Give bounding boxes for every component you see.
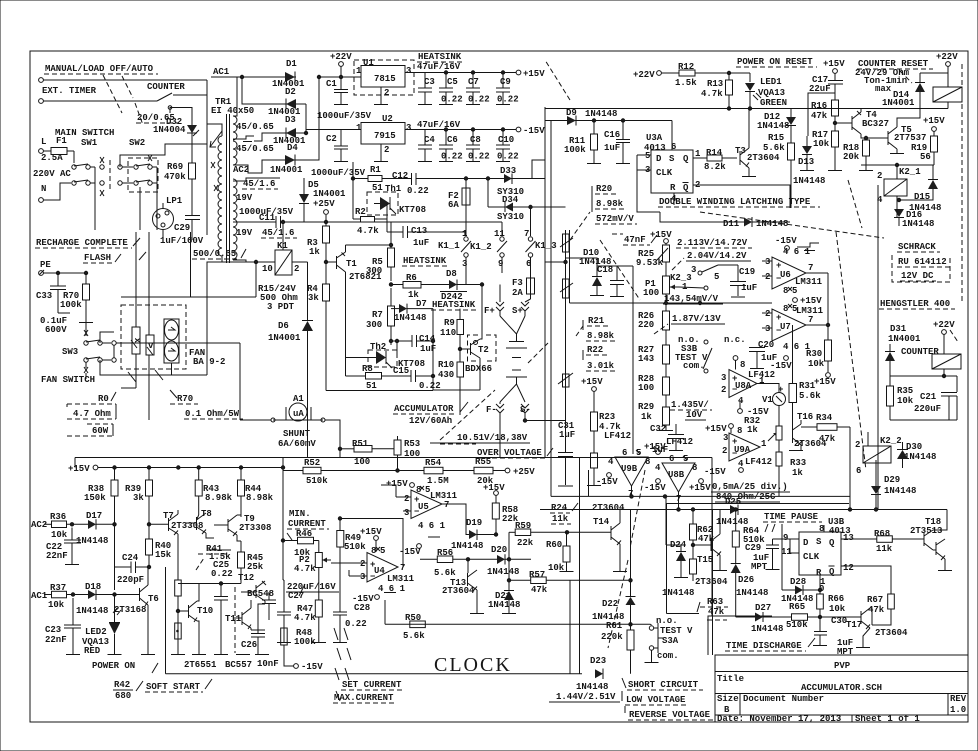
wire T2 emitter row <box>433 389 480 391</box>
svg-text:11k: 11k <box>876 544 893 554</box>
svg-text:+15V: +15V <box>650 230 672 240</box>
label ACCUMULATOR <box>393 402 468 426</box>
capacitor C10 <box>496 128 519 162</box>
capacitor C2 <box>326 130 348 162</box>
wire counter drop <box>170 108 192 164</box>
svg-text:1uF: 1uF <box>420 344 436 354</box>
svg-text:1uF/160V: 1uF/160V <box>160 236 204 246</box>
svg-text:C6: C6 <box>447 135 458 145</box>
fuse F2 <box>448 177 470 232</box>
capacitor C6 <box>439 128 463 162</box>
svg-text:C8: C8 <box>470 135 481 145</box>
diode D16 <box>894 209 934 229</box>
wire shunt leads <box>240 419 271 421</box>
terminal +15V mid <box>793 296 823 306</box>
wire K1 coil <box>207 261 275 263</box>
label COUNTER RESET <box>855 59 933 94</box>
contact K1_1 <box>438 229 482 285</box>
label TIME DISCHARGE <box>725 638 815 651</box>
svg-text:1000uF/35V: 1000uF/35V <box>311 168 366 178</box>
label +22V counter <box>933 320 958 354</box>
lamp LP1 <box>153 196 183 240</box>
resistor R28 <box>638 374 670 407</box>
label R41 annotation <box>196 544 233 579</box>
svg-text:D31: D31 <box>890 324 907 334</box>
resistor R1 leads <box>351 162 383 195</box>
resistor R60 <box>546 532 574 573</box>
svg-text:1N4004: 1N4004 <box>153 125 186 135</box>
transistor T8 <box>186 509 214 538</box>
svg-text:L: L <box>41 137 46 147</box>
wire fan wiring <box>85 323 87 337</box>
svg-text:D11: D11 <box>723 219 740 229</box>
svg-text:1N4148: 1N4148 <box>884 486 916 496</box>
svg-text:U6: U6 <box>780 270 791 280</box>
diode D1 <box>272 59 305 89</box>
resistor R50 <box>403 613 425 641</box>
svg-text:1.435V/: 1.435V/ <box>671 400 709 410</box>
opamp U8A LF412 <box>721 356 775 417</box>
wire D3 anode to winding <box>254 133 285 141</box>
svg-text:1N4001: 1N4001 <box>882 98 915 108</box>
wire -15V bus left <box>282 458 284 541</box>
wire primary bottom <box>207 256 222 273</box>
wire F- drop <box>499 430 501 458</box>
transformer TR1 secondary 45/0.65 windings <box>233 116 237 140</box>
svg-text:1N4148: 1N4148 <box>736 588 768 598</box>
wire time-discharge bracket <box>708 616 772 655</box>
svg-text:1N4001: 1N4001 <box>888 334 921 344</box>
svg-text:47k: 47k <box>819 434 836 444</box>
resistor R70 <box>60 273 93 323</box>
resistor R39 <box>125 468 153 540</box>
svg-text:+15V: +15V <box>360 527 382 537</box>
svg-text:R57: R57 <box>529 570 545 580</box>
resistor R10 <box>438 360 464 415</box>
capacitor C26 <box>241 604 265 654</box>
svg-text:CLK: CLK <box>803 552 820 562</box>
wire 19V top tap <box>233 178 280 181</box>
svg-text:C29: C29 <box>745 543 761 553</box>
svg-text:45/1.6: 45/1.6 <box>262 228 294 238</box>
label OVER VOLTAGE <box>440 444 553 458</box>
capacitor C30 <box>813 616 854 657</box>
capacitor C9 <box>496 71 519 105</box>
regulator U2 7915 <box>341 114 516 162</box>
terminal -15V bl <box>284 660 323 672</box>
svg-text:2: 2 <box>294 264 299 274</box>
wire <box>43 100 157 102</box>
svg-text:1k: 1k <box>747 425 758 435</box>
svg-text:POWER ON: POWER ON <box>92 661 135 671</box>
svg-text:FLASH: FLASH <box>84 253 111 263</box>
wire +22V rail <box>319 76 360 78</box>
diode D33 <box>497 166 532 197</box>
transistor T15 <box>693 510 728 588</box>
svg-text:R70: R70 <box>177 394 193 404</box>
svg-text:R7: R7 <box>372 310 383 320</box>
opamp U6 LM311 <box>762 247 828 289</box>
svg-text:1N4148: 1N4148 <box>756 219 788 229</box>
wire minus rail to C2 <box>306 130 341 134</box>
resistor R64 <box>732 508 765 563</box>
opamp U9B LF412 <box>596 431 666 499</box>
svg-text:220uF: 220uF <box>914 404 941 414</box>
node S- <box>520 404 531 421</box>
svg-text:+15V: +15V <box>923 116 945 126</box>
wire C33 bottom <box>58 312 70 314</box>
node S+ <box>512 299 531 316</box>
svg-text:D4: D4 <box>287 143 298 153</box>
wire long y509 <box>540 509 947 511</box>
battery accumulator <box>500 316 527 402</box>
svg-text:K1_2: K1_2 <box>470 242 492 252</box>
diode D23 <box>576 656 608 692</box>
relay counter coil <box>932 354 961 376</box>
svg-text:max: max <box>875 84 892 94</box>
resistor R12 <box>661 62 750 88</box>
capacitor C33 <box>36 273 66 313</box>
wire K2 top <box>897 109 920 124</box>
transformer adjust arrows <box>210 131 222 191</box>
svg-text:3k: 3k <box>133 493 144 503</box>
wire U3A pin5 loop <box>637 155 660 212</box>
svg-text:R29: R29 <box>638 402 654 412</box>
transformer TR1 labels <box>211 97 254 116</box>
relay K1 <box>262 241 299 275</box>
svg-text:0.22: 0.22 <box>407 186 429 196</box>
svg-text:47uF/16V: 47uF/16V <box>417 120 461 130</box>
svg-text:D22: D22 <box>602 599 618 609</box>
wire sense buses <box>545 107 570 458</box>
svg-text:LF412: LF412 <box>604 431 631 441</box>
svg-text:2T7537: 2T7537 <box>894 133 926 143</box>
resistor R67 <box>841 566 894 625</box>
svg-text:BA 9-2: BA 9-2 <box>193 357 225 367</box>
svg-text:TIME PAUSE: TIME PAUSE <box>764 512 819 522</box>
svg-text:C2: C2 <box>326 134 337 144</box>
wire counter net <box>890 374 957 392</box>
svg-text:19V: 19V <box>236 228 253 238</box>
svg-text:5.6k: 5.6k <box>763 143 785 153</box>
svg-text:51: 51 <box>366 381 377 391</box>
svg-text:SCHRACK: SCHRACK <box>898 242 936 252</box>
svg-text:U3A: U3A <box>646 133 663 143</box>
resistor R13 <box>701 71 733 108</box>
transformer TR1 secondary 19V windings <box>233 179 237 259</box>
svg-text:1N4001: 1N4001 <box>268 333 301 343</box>
diode D11 <box>700 217 790 229</box>
capacitor C16 <box>604 119 630 164</box>
svg-text:100k: 100k <box>564 145 586 155</box>
svg-text:5.6k: 5.6k <box>799 391 821 401</box>
fuse F1 <box>43 148 74 155</box>
svg-text:SET CURRENT: SET CURRENT <box>342 680 402 690</box>
svg-text:-15V: -15V <box>704 467 726 477</box>
svg-text:R66: R66 <box>828 594 844 604</box>
svg-text:U8A: U8A <box>735 381 752 391</box>
label R0 annotation <box>67 392 116 419</box>
label FLASH <box>83 252 146 263</box>
wire soft start box <box>165 567 167 674</box>
svg-text:D30: D30 <box>906 442 922 452</box>
svg-text:T6: T6 <box>148 594 159 604</box>
svg-text:F1: F1 <box>56 136 67 146</box>
svg-text:D28: D28 <box>790 577 806 587</box>
label 500/0.65 <box>160 236 246 259</box>
svg-text:47k: 47k <box>531 585 548 595</box>
switch SW1 contacts row1 <box>72 151 95 230</box>
svg-text:HEATSINK: HEATSINK <box>418 52 462 62</box>
svg-text:C33: C33 <box>36 291 52 301</box>
svg-text:BDX66: BDX66 <box>465 364 492 374</box>
svg-text:8.98k: 8.98k <box>587 331 615 341</box>
svg-text:3: 3 <box>723 433 728 443</box>
svg-text:3: 3 <box>406 123 411 133</box>
resistor R44 <box>238 468 274 518</box>
svg-text:4 6 1: 4 6 1 <box>418 521 446 531</box>
svg-text:R61: R61 <box>606 621 623 631</box>
svg-text:5: 5 <box>792 286 797 296</box>
wire primary top <box>207 124 222 136</box>
svg-text:LM311: LM311 <box>387 574 415 584</box>
svg-text:CLK: CLK <box>656 168 673 178</box>
svg-text:10k: 10k <box>829 604 846 614</box>
svg-text:SY310: SY310 <box>497 212 524 222</box>
svg-text:+15V: +15V <box>386 479 408 489</box>
svg-text:T14: T14 <box>593 517 610 527</box>
wire D33/D34 right joins <box>532 160 545 179</box>
resistor R8 <box>346 364 412 391</box>
resistor R35 <box>887 386 914 420</box>
wire bus verticals <box>135 232 137 327</box>
label HEATSINK T1 <box>402 256 450 266</box>
switch SW2 contacts <box>122 155 158 230</box>
diode D10 <box>579 248 611 296</box>
label SHORT CIRCUIT <box>622 678 715 720</box>
svg-text:MPT: MPT <box>751 562 768 572</box>
dashed margin line <box>961 64 963 302</box>
svg-text:SW3: SW3 <box>62 347 78 357</box>
label 10.51V/18,38V <box>430 433 530 443</box>
relay K2_2 <box>855 432 902 486</box>
transistor T5 <box>874 123 926 154</box>
svg-text:10V: 10V <box>686 410 703 420</box>
diode D30 <box>897 442 936 468</box>
wire section divider x878 <box>877 185 879 510</box>
svg-text:572mV/V: 572mV/V <box>596 214 634 224</box>
label SCHRACK box <box>892 242 950 282</box>
svg-text:T16: T16 <box>797 412 813 422</box>
wire <box>43 79 207 81</box>
label 1.435V/10V <box>670 400 712 420</box>
svg-text:T2: T2 <box>478 345 489 355</box>
svg-text:R35: R35 <box>897 386 913 396</box>
svg-text:0.22: 0.22 <box>211 569 233 579</box>
transistor T6 <box>114 567 159 654</box>
svg-text:SW1: SW1 <box>81 138 98 148</box>
svg-text:n.c.: n.c. <box>724 335 746 345</box>
capacitor C14 <box>389 334 436 354</box>
svg-text:8: 8 <box>783 286 788 296</box>
svg-text:CLOCK: CLOCK <box>434 654 512 676</box>
svg-text:3: 3 <box>765 324 770 334</box>
svg-text:-15V: -15V <box>301 662 323 672</box>
capacitor C13 <box>387 219 466 248</box>
svg-text:R22: R22 <box>587 345 603 355</box>
wire section divider right <box>712 510 714 656</box>
svg-text:1k: 1k <box>641 412 652 422</box>
svg-text:-15V: -15V <box>644 483 666 493</box>
svg-text:C12: C12 <box>392 171 408 181</box>
svg-text:D19: D19 <box>466 518 482 528</box>
capacitor C3 <box>418 73 435 105</box>
transistor T4 <box>835 109 889 139</box>
svg-text:Q: Q <box>829 538 835 548</box>
capacitor C20 <box>749 340 777 369</box>
svg-text:K2_2: K2_2 <box>880 436 902 446</box>
label POWER ON RESET <box>736 57 817 67</box>
resistor R4 <box>307 260 433 390</box>
svg-text:8.98k: 8.98k <box>205 493 233 503</box>
svg-text:300: 300 <box>366 320 382 330</box>
svg-text:D33: D33 <box>500 166 516 176</box>
svg-text:1uF: 1uF <box>559 430 575 440</box>
svg-text:Title: Title <box>717 674 744 684</box>
svg-text:R: R <box>670 183 676 193</box>
svg-text:10k: 10k <box>48 600 65 610</box>
svg-text:Q: Q <box>829 567 835 577</box>
label +22V right <box>633 70 661 80</box>
svg-text:3: 3 <box>462 259 467 269</box>
svg-text:220k: 220k <box>601 632 623 642</box>
svg-text:C26: C26 <box>241 640 257 650</box>
svg-text:R13: R13 <box>707 79 723 89</box>
svg-text:0.1 Ohm/5W: 0.1 Ohm/5W <box>185 409 240 419</box>
svg-text:1N4001: 1N4001 <box>270 165 303 175</box>
wire 19V bottom tap <box>233 260 262 262</box>
svg-text:2A: 2A <box>512 288 523 298</box>
wire R26 chain box edge <box>632 266 634 454</box>
svg-text:F3: F3 <box>512 278 523 288</box>
diode D5 <box>299 178 346 222</box>
label MIN.CURRENT <box>287 509 329 540</box>
svg-text:HEATSINK: HEATSINK <box>403 256 447 266</box>
svg-text:300: 300 <box>366 266 382 276</box>
terminal +15V <box>516 69 545 79</box>
svg-text:8: 8 <box>740 360 745 370</box>
svg-text:2.113V/14.72V: 2.113V/14.72V <box>677 238 748 248</box>
label 1.87V/13V <box>654 314 725 334</box>
node F+ <box>480 283 504 316</box>
resistor R51 <box>338 439 394 467</box>
svg-text:F+: F+ <box>484 306 495 316</box>
svg-text:2: 2 <box>855 440 860 450</box>
svg-text:U8B: U8B <box>668 470 685 480</box>
svg-text:5.6k: 5.6k <box>434 568 456 578</box>
svg-text:BC557: BC557 <box>225 660 252 670</box>
svg-text:RU 614112: RU 614112 <box>898 257 947 267</box>
svg-text:100: 100 <box>643 288 659 298</box>
svg-text:150k: 150k <box>84 493 106 503</box>
resistor R40 <box>146 523 172 567</box>
label 1.44V/2.51V <box>549 692 620 702</box>
svg-text:8.2k: 8.2k <box>704 162 726 172</box>
transistor T3 <box>735 145 780 177</box>
resistor R52 <box>283 458 398 486</box>
svg-text:R0: R0 <box>98 394 109 404</box>
svg-text:U9A: U9A <box>734 445 751 455</box>
svg-text:3: 3 <box>721 373 726 383</box>
svg-text:GREEN: GREEN <box>760 98 787 108</box>
thyristor Th1 <box>367 184 426 215</box>
svg-text:143: 143 <box>638 354 654 364</box>
resistor R53 <box>394 436 420 471</box>
wire D15/D16 join <box>899 196 933 200</box>
svg-text:0,5mA/25 div.): 0,5mA/25 div.) <box>712 482 788 492</box>
resistor R9 <box>440 309 464 362</box>
capacitor C28 <box>333 603 370 643</box>
svg-text:7: 7 <box>808 263 813 273</box>
terminal +25V <box>313 199 335 222</box>
svg-text:LM311: LM311 <box>796 306 824 316</box>
transistor T9 <box>214 514 271 541</box>
resistor R45 <box>238 541 264 584</box>
svg-text:R10: R10 <box>438 360 454 370</box>
svg-text:U7: U7 <box>780 322 791 332</box>
svg-text:13: 13 <box>843 533 854 543</box>
terminal +15V rail <box>68 464 283 474</box>
potentiometer P1 <box>643 276 679 311</box>
svg-text:A1: A1 <box>293 394 304 404</box>
capacitor C32 <box>650 424 684 455</box>
diode D29 <box>871 475 916 511</box>
svg-text:1.5k: 1.5k <box>675 78 697 88</box>
label 143,54mV/V <box>663 294 723 304</box>
svg-text:C30: C30 <box>831 616 847 626</box>
svg-text:2: 2 <box>360 559 365 569</box>
IC U3B 4013 <box>781 517 854 594</box>
svg-text:D: D <box>803 538 809 548</box>
svg-text:R67: R67 <box>867 595 883 605</box>
svg-text:Document Number: Document Number <box>743 694 824 704</box>
svg-text:AC1: AC1 <box>213 67 230 77</box>
svg-text:1: 1 <box>356 66 362 76</box>
svg-text:220V AC: 220V AC <box>33 169 71 179</box>
capacitor C18 <box>566 258 625 297</box>
wire vertical x579 <box>579 458 581 674</box>
svg-text:220: 220 <box>638 320 654 330</box>
svg-text:R69: R69 <box>167 162 183 172</box>
svg-text:D: D <box>656 154 662 164</box>
resistor R7 <box>366 288 395 345</box>
svg-text:+15V: +15V <box>689 483 711 493</box>
svg-text:2T3308: 2T3308 <box>239 523 271 533</box>
svg-text:R52: R52 <box>304 458 320 468</box>
svg-text:R54: R54 <box>425 458 442 468</box>
svg-text:1.44V/2.51V: 1.44V/2.51V <box>556 692 616 702</box>
svg-text:D25: D25 <box>725 497 741 507</box>
svg-text:6A/60mV: 6A/60mV <box>278 439 316 449</box>
capacitor C21 <box>914 392 957 420</box>
svg-text:S: S <box>816 537 822 547</box>
annotation slash <box>122 76 133 98</box>
svg-text:C5: C5 <box>447 77 458 87</box>
resistor R27 <box>638 345 670 377</box>
resistor R62 <box>690 508 715 559</box>
wire D2 feed <box>242 77 285 104</box>
svg-text:+15V: +15V <box>823 59 845 69</box>
